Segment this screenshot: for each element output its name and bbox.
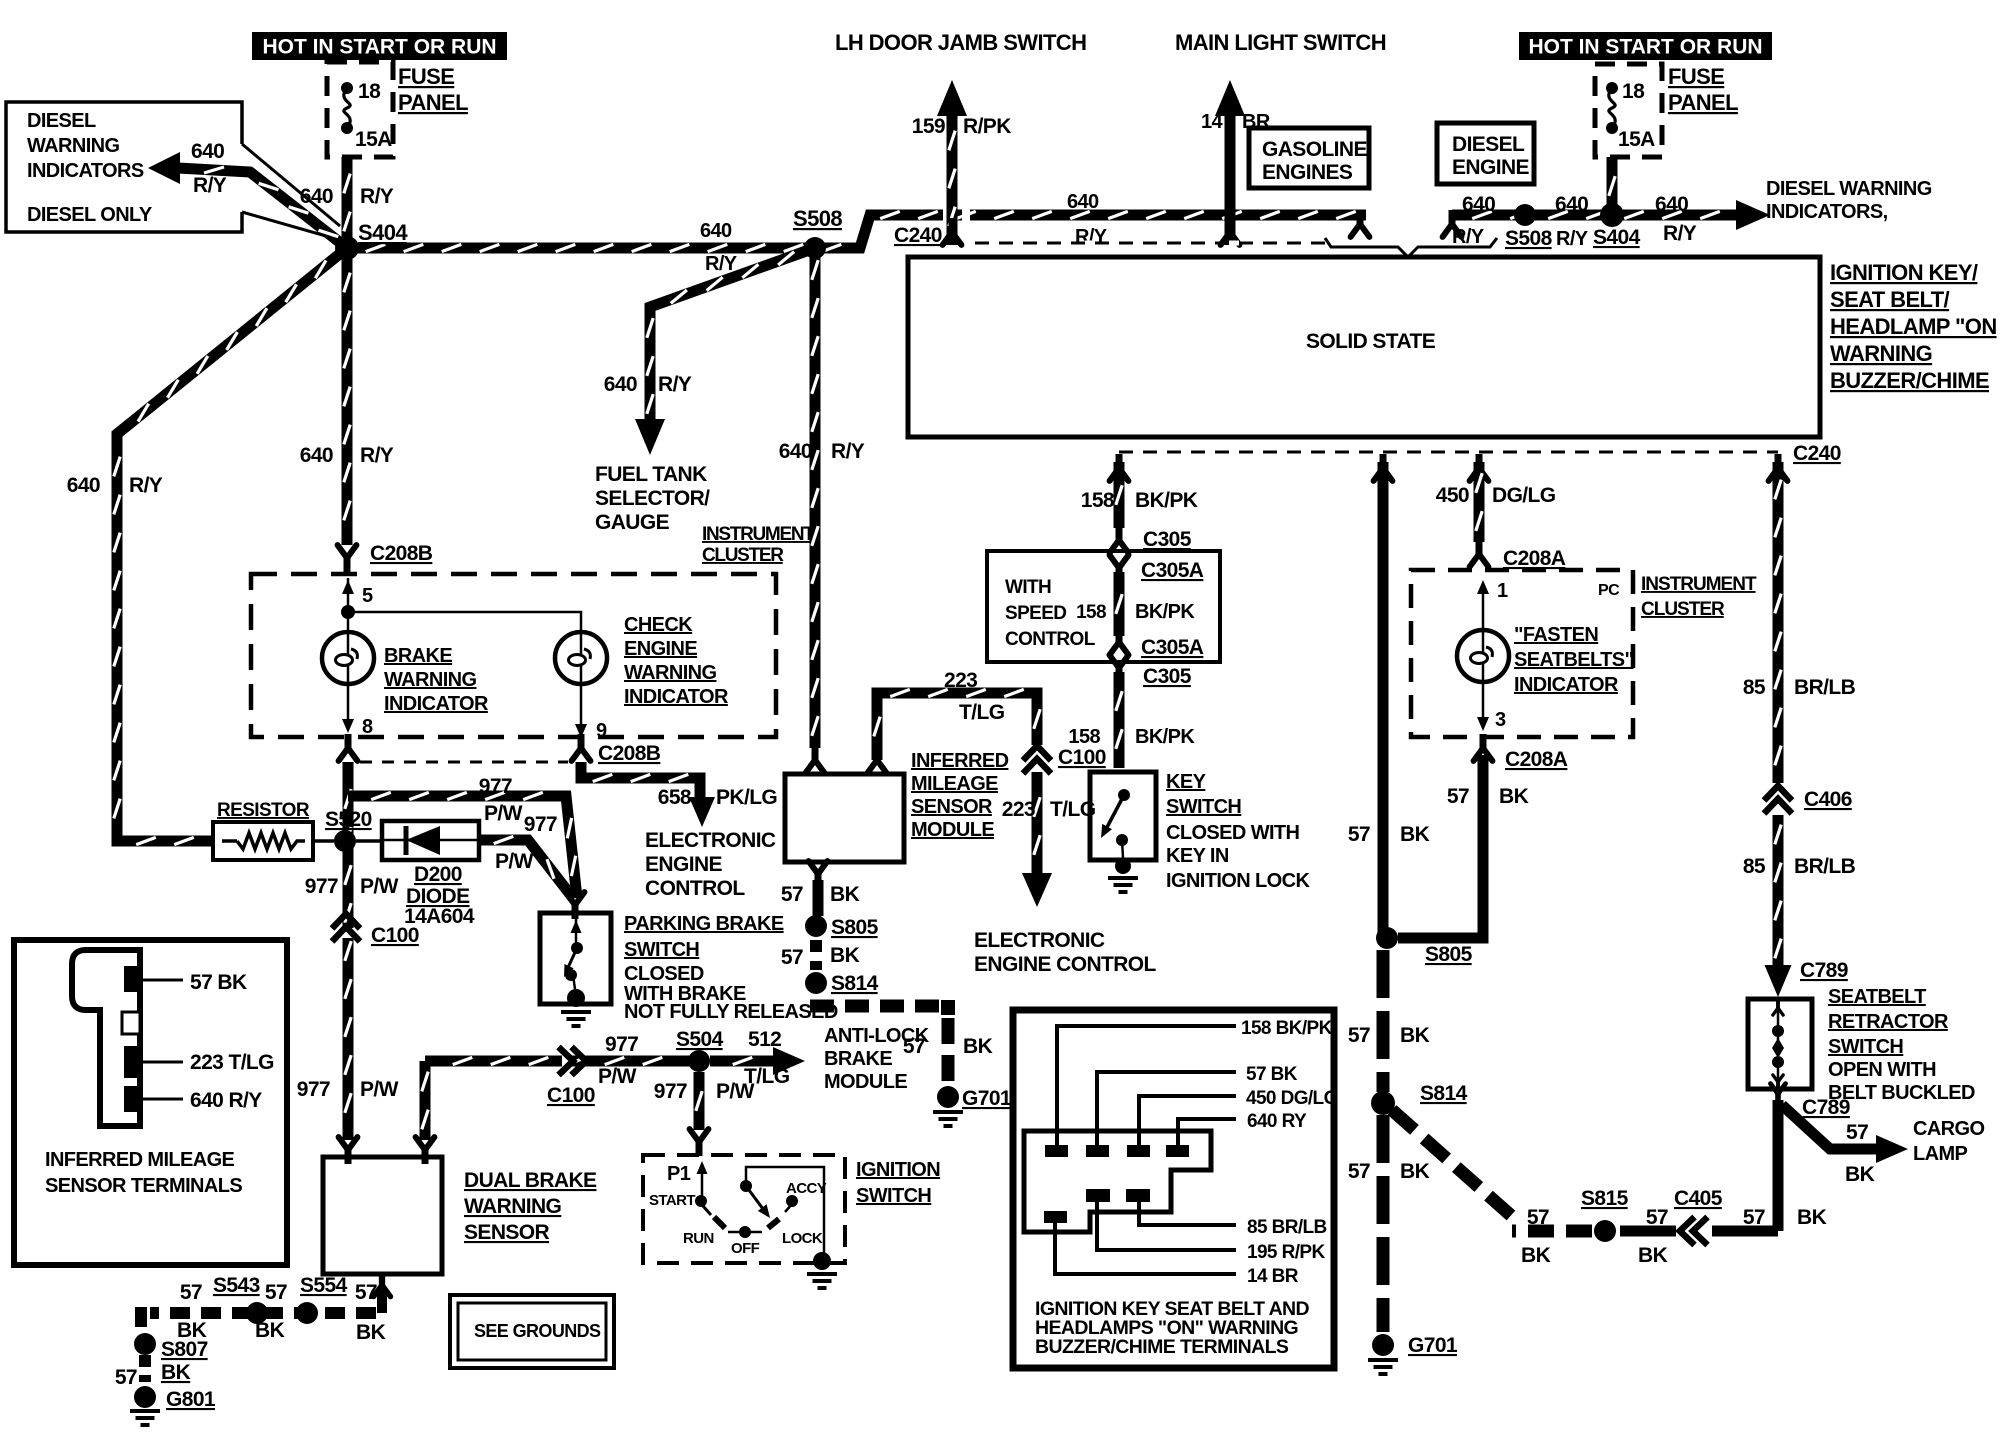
svg-text:MILEAGE: MILEAGE <box>911 773 998 795</box>
svg-text:HOT IN START OR RUN: HOT IN START OR RUN <box>1528 36 1762 59</box>
svg-text:IGNITION KEY/: IGNITION KEY/ <box>1830 260 1978 285</box>
svg-text:BK/PK: BK/PK <box>1135 489 1198 512</box>
svg-text:WARNING: WARNING <box>1830 341 1932 366</box>
svg-text:C208A: C208A <box>1503 547 1566 570</box>
svg-text:SEATBELT: SEATBELT <box>1828 986 1926 1008</box>
svg-text:57: 57 <box>781 883 803 906</box>
svg-text:CLOSED WITH: CLOSED WITH <box>1166 822 1300 844</box>
svg-text:DIESEL WARNING: DIESEL WARNING <box>1766 178 1932 200</box>
svg-text:P/W: P/W <box>360 1078 399 1101</box>
svg-text:85 BR/LB: 85 BR/LB <box>1247 1217 1327 1238</box>
svg-text:S508: S508 <box>793 206 842 231</box>
svg-text:158: 158 <box>1068 726 1100 748</box>
svg-text:85: 85 <box>1743 855 1766 878</box>
svg-text:977: 977 <box>605 1033 638 1056</box>
svg-text:ACCY: ACCY <box>786 1180 827 1197</box>
svg-text:BK: BK <box>1797 1206 1827 1229</box>
svg-text:P/W: P/W <box>360 875 399 898</box>
svg-text:P/W: P/W <box>598 1065 637 1088</box>
svg-text:S404: S404 <box>1593 226 1641 249</box>
svg-text:15A: 15A <box>355 128 392 151</box>
svg-text:BK: BK <box>1400 1160 1430 1183</box>
svg-text:BUZZER/CHIME: BUZZER/CHIME <box>1830 368 1989 393</box>
svg-text:SWITCH: SWITCH <box>1166 796 1241 818</box>
svg-text:S807: S807 <box>161 1338 208 1361</box>
svg-text:R/Y: R/Y <box>360 444 394 467</box>
svg-text:BK: BK <box>1638 1244 1668 1267</box>
svg-text:57: 57 <box>1743 1206 1765 1229</box>
svg-text:S815: S815 <box>1581 1187 1629 1210</box>
svg-text:LOCK: LOCK <box>782 1230 823 1247</box>
svg-text:57: 57 <box>1348 1024 1370 1047</box>
svg-text:DG/LG: DG/LG <box>1492 484 1556 507</box>
svg-text:ENGINES: ENGINES <box>1262 161 1353 184</box>
svg-text:159: 159 <box>912 115 945 138</box>
svg-text:KEY IN: KEY IN <box>1166 845 1229 867</box>
svg-text:RESISTOR: RESISTOR <box>217 800 310 821</box>
svg-text:P/W: P/W <box>495 850 534 873</box>
svg-text:HOT IN START OR RUN: HOT IN START OR RUN <box>262 36 496 59</box>
svg-text:223 T/LG: 223 T/LG <box>190 1051 274 1074</box>
svg-text:C208B: C208B <box>370 542 433 565</box>
svg-text:512: 512 <box>748 1028 781 1051</box>
svg-text:640: 640 <box>191 140 224 163</box>
svg-text:57 BK: 57 BK <box>1246 1064 1298 1085</box>
svg-text:640: 640 <box>300 444 333 467</box>
svg-text:57: 57 <box>1348 823 1370 846</box>
svg-text:SEAT BELT/: SEAT BELT/ <box>1830 287 1950 312</box>
svg-text:R/Y: R/Y <box>831 440 865 463</box>
svg-text:SPEED: SPEED <box>1005 603 1066 624</box>
svg-text:SELECTOR/: SELECTOR/ <box>595 487 710 510</box>
svg-text:9: 9 <box>596 720 607 742</box>
svg-text:WARNING: WARNING <box>624 662 717 684</box>
svg-text:158 BK/PK: 158 BK/PK <box>1241 1018 1333 1039</box>
svg-text:MODULE: MODULE <box>911 819 994 841</box>
svg-text:R/Y: R/Y <box>1556 228 1589 250</box>
svg-text:57: 57 <box>1846 1121 1868 1144</box>
svg-text:BRAKE: BRAKE <box>824 1048 892 1070</box>
svg-text:G701: G701 <box>1408 1334 1458 1357</box>
svg-text:CLUSTER: CLUSTER <box>1641 599 1725 620</box>
svg-text:158: 158 <box>1076 602 1106 623</box>
svg-text:S508: S508 <box>1505 227 1553 250</box>
svg-text:INDICATOR: INDICATOR <box>384 693 489 715</box>
svg-text:57: 57 <box>265 1281 287 1304</box>
svg-text:G701: G701 <box>962 1087 1012 1110</box>
svg-text:LAMP: LAMP <box>1913 1143 1968 1165</box>
svg-text:S520: S520 <box>325 808 372 831</box>
svg-text:BR/LB: BR/LB <box>1794 855 1856 878</box>
svg-text:C305A: C305A <box>1141 636 1204 659</box>
svg-text:GAUGE: GAUGE <box>595 511 670 534</box>
svg-text:PARKING BRAKE: PARKING BRAKE <box>624 913 784 935</box>
svg-text:57: 57 <box>1348 1160 1370 1183</box>
svg-text:SWITCH: SWITCH <box>856 1185 931 1207</box>
svg-text:BK: BK <box>963 1035 993 1058</box>
svg-text:BK: BK <box>356 1321 386 1344</box>
svg-text:57: 57 <box>781 946 803 969</box>
svg-text:S814: S814 <box>1420 1082 1468 1105</box>
svg-text:P1: P1 <box>667 1163 691 1185</box>
svg-text:PK/LG: PK/LG <box>716 786 777 809</box>
svg-text:INDICATORS,: INDICATORS, <box>1766 201 1888 223</box>
svg-text:NOT FULLY RELEASED: NOT FULLY RELEASED <box>624 1001 838 1023</box>
svg-text:OFF: OFF <box>731 1240 760 1257</box>
svg-text:57: 57 <box>180 1281 202 1304</box>
svg-text:IGNITION LOCK: IGNITION LOCK <box>1166 870 1310 892</box>
svg-text:SENSOR: SENSOR <box>911 796 993 818</box>
svg-text:LH DOOR JAMB SWITCH: LH DOOR JAMB SWITCH <box>835 30 1086 55</box>
svg-text:CONTROL: CONTROL <box>1005 629 1096 650</box>
svg-text:640: 640 <box>1555 193 1588 216</box>
svg-text:BUZZER/CHIME TERMINALS: BUZZER/CHIME TERMINALS <box>1035 1336 1289 1358</box>
svg-text:ENGINE CONTROL: ENGINE CONTROL <box>974 953 1157 976</box>
svg-text:FUSE: FUSE <box>398 64 454 89</box>
svg-text:57: 57 <box>355 1281 377 1304</box>
svg-text:ENGINE: ENGINE <box>645 853 723 876</box>
svg-text:BK: BK <box>1521 1244 1551 1267</box>
svg-text:640: 640 <box>1067 191 1099 213</box>
svg-text:640: 640 <box>604 373 637 396</box>
svg-text:HEADLAMP "ON: HEADLAMP "ON <box>1830 314 1997 339</box>
svg-text:15A: 15A <box>1618 128 1655 151</box>
svg-text:INDICATORS: INDICATORS <box>27 160 144 182</box>
svg-text:SEATBELTS": SEATBELTS" <box>1514 649 1634 671</box>
svg-text:BRAKE: BRAKE <box>384 645 452 667</box>
svg-text:195 R/PK: 195 R/PK <box>1247 1242 1325 1263</box>
svg-text:C240: C240 <box>894 224 942 247</box>
svg-text:BK/PK: BK/PK <box>1135 601 1195 623</box>
svg-text:C789: C789 <box>1802 1096 1850 1119</box>
svg-text:S404: S404 <box>358 220 408 245</box>
svg-text:18: 18 <box>1622 80 1645 103</box>
svg-text:BK: BK <box>1499 785 1529 808</box>
svg-text:BK: BK <box>1400 1024 1430 1047</box>
svg-text:C100: C100 <box>547 1084 595 1107</box>
svg-text:14: 14 <box>1201 111 1224 133</box>
svg-text:C305: C305 <box>1143 665 1192 688</box>
svg-text:8: 8 <box>362 716 373 738</box>
svg-text:C305: C305 <box>1143 528 1192 551</box>
svg-text:BK/PK: BK/PK <box>1135 726 1195 748</box>
svg-text:SENSOR TERMINALS: SENSOR TERMINALS <box>45 1175 242 1197</box>
svg-text:640: 640 <box>67 474 100 497</box>
svg-text:INSTRUMENT: INSTRUMENT <box>702 524 815 545</box>
svg-text:85: 85 <box>1743 676 1766 699</box>
svg-text:R/Y: R/Y <box>193 174 227 197</box>
svg-text:P/W: P/W <box>716 1080 755 1103</box>
svg-text:640 RY: 640 RY <box>1247 1111 1307 1132</box>
svg-text:18: 18 <box>358 80 381 103</box>
svg-text:C406: C406 <box>1804 788 1852 811</box>
svg-text:PC: PC <box>1598 582 1620 599</box>
svg-text:640: 640 <box>779 440 812 463</box>
svg-text:PANEL: PANEL <box>1668 90 1738 115</box>
svg-text:ELECTRONIC: ELECTRONIC <box>645 829 776 852</box>
svg-text:C240: C240 <box>1793 442 1841 465</box>
svg-text:INFERRED: INFERRED <box>911 750 1009 772</box>
svg-text:977: 977 <box>654 1080 687 1103</box>
svg-text:SOLID STATE: SOLID STATE <box>1306 330 1436 353</box>
svg-text:IGNITION: IGNITION <box>856 1159 940 1181</box>
svg-text:3: 3 <box>1495 709 1506 731</box>
svg-text:S805: S805 <box>831 916 879 939</box>
svg-text:57: 57 <box>1646 1206 1668 1229</box>
svg-text:158: 158 <box>1081 489 1115 512</box>
svg-text:450 DG/LG: 450 DG/LG <box>1246 1088 1338 1109</box>
svg-text:RUN: RUN <box>683 1230 714 1247</box>
svg-text:S814: S814 <box>831 972 879 995</box>
svg-text:14 BR: 14 BR <box>1247 1266 1299 1287</box>
svg-text:S805: S805 <box>1425 943 1473 966</box>
svg-text:640: 640 <box>1462 193 1495 216</box>
svg-text:977: 977 <box>479 775 512 798</box>
svg-text:S554: S554 <box>300 1274 348 1297</box>
svg-text:P/W: P/W <box>484 802 523 825</box>
svg-text:R/Y: R/Y <box>360 185 394 208</box>
svg-text:R/PK: R/PK <box>963 115 1011 138</box>
svg-text:640: 640 <box>1655 193 1688 216</box>
svg-text:5: 5 <box>362 585 373 607</box>
svg-text:MAIN LIGHT SWITCH: MAIN LIGHT SWITCH <box>1175 30 1386 55</box>
svg-text:ANTI-LOCK: ANTI-LOCK <box>824 1025 930 1047</box>
svg-text:DIESEL: DIESEL <box>27 110 96 132</box>
svg-text:640 R/Y: 640 R/Y <box>190 1089 262 1112</box>
svg-text:ENGINE: ENGINE <box>624 638 697 660</box>
svg-text:SENSOR: SENSOR <box>464 1221 550 1244</box>
svg-text:C208A: C208A <box>1505 748 1568 771</box>
svg-text:450: 450 <box>1436 484 1469 507</box>
svg-text:R/Y: R/Y <box>658 373 692 396</box>
svg-text:G801: G801 <box>166 1388 216 1411</box>
svg-text:RETRACTOR: RETRACTOR <box>1828 1011 1949 1033</box>
svg-text:C789: C789 <box>1800 959 1848 982</box>
svg-text:BK: BK <box>1845 1163 1875 1186</box>
svg-text:INSTRUMENT: INSTRUMENT <box>1641 574 1757 595</box>
svg-text:C305A: C305A <box>1141 559 1204 582</box>
svg-text:DUAL BRAKE: DUAL BRAKE <box>464 1169 597 1192</box>
svg-text:WITH: WITH <box>1005 577 1051 598</box>
svg-text:WARNING: WARNING <box>464 1195 562 1218</box>
svg-text:SEE GROUNDS: SEE GROUNDS <box>474 1321 601 1341</box>
svg-text:WARNING: WARNING <box>384 669 477 691</box>
svg-text:FUSE: FUSE <box>1668 64 1724 89</box>
svg-text:SWITCH: SWITCH <box>1828 1036 1903 1058</box>
svg-text:BR/LB: BR/LB <box>1794 676 1856 699</box>
svg-text:SWITCH: SWITCH <box>624 939 699 961</box>
svg-text:MODULE: MODULE <box>824 1071 907 1093</box>
svg-text:223: 223 <box>1002 798 1035 821</box>
svg-text:CHECK: CHECK <box>624 614 693 636</box>
svg-text:977: 977 <box>305 875 338 898</box>
svg-text:INDICATOR: INDICATOR <box>624 686 729 708</box>
svg-text:BK: BK <box>255 1319 285 1342</box>
svg-text:START: START <box>649 1192 695 1209</box>
svg-text:KEY: KEY <box>1166 771 1207 793</box>
svg-text:977: 977 <box>524 813 557 836</box>
svg-text:DIESEL ONLY: DIESEL ONLY <box>27 204 153 226</box>
svg-text:BELT BUCKLED: BELT BUCKLED <box>1828 1082 1975 1104</box>
svg-text:WARNING: WARNING <box>27 135 120 157</box>
svg-text:C100: C100 <box>1058 746 1106 769</box>
svg-text:223: 223 <box>944 669 977 692</box>
svg-text:R/Y: R/Y <box>1452 226 1485 248</box>
svg-text:57: 57 <box>115 1366 137 1389</box>
svg-text:S504: S504 <box>676 1028 724 1051</box>
svg-text:ENGINE: ENGINE <box>1452 156 1530 179</box>
svg-text:GASOLINE: GASOLINE <box>1262 138 1367 161</box>
svg-text:57: 57 <box>1527 1206 1549 1229</box>
svg-text:C208B: C208B <box>598 742 661 765</box>
svg-text:BK: BK <box>830 883 860 906</box>
svg-text:57 BK: 57 BK <box>190 971 247 994</box>
svg-text:CLOSED: CLOSED <box>624 963 704 985</box>
svg-text:S543: S543 <box>213 1274 260 1297</box>
svg-text:BK: BK <box>1400 823 1430 846</box>
svg-text:14A604: 14A604 <box>404 905 475 928</box>
svg-text:INDICATOR: INDICATOR <box>1514 674 1619 696</box>
svg-text:T/LG: T/LG <box>959 701 1005 724</box>
svg-text:977: 977 <box>297 1078 330 1101</box>
svg-text:DIESEL: DIESEL <box>1452 133 1525 156</box>
svg-text:OPEN WITH: OPEN WITH <box>1828 1059 1936 1081</box>
svg-text:CONTROL: CONTROL <box>645 877 745 900</box>
svg-text:ELECTRONIC: ELECTRONIC <box>974 929 1105 952</box>
svg-text:"FASTEN: "FASTEN <box>1514 624 1598 646</box>
svg-text:PANEL: PANEL <box>398 90 468 115</box>
svg-text:INFERRED MILEAGE: INFERRED MILEAGE <box>45 1149 235 1171</box>
svg-text:FUEL TANK: FUEL TANK <box>595 463 707 486</box>
svg-text:BK: BK <box>830 944 860 967</box>
svg-text:640: 640 <box>700 220 732 242</box>
svg-text:R/Y: R/Y <box>129 474 163 497</box>
svg-text:1: 1 <box>1497 580 1508 602</box>
svg-text:658: 658 <box>658 786 692 809</box>
svg-text:R/Y: R/Y <box>1663 222 1697 245</box>
svg-text:CLUSTER: CLUSTER <box>702 545 784 566</box>
svg-text:CARGO: CARGO <box>1913 1118 1984 1140</box>
svg-text:D200: D200 <box>414 863 462 886</box>
svg-text:BK: BK <box>161 1361 191 1384</box>
svg-text:57: 57 <box>1447 785 1469 808</box>
svg-text:C405: C405 <box>1674 1187 1723 1210</box>
